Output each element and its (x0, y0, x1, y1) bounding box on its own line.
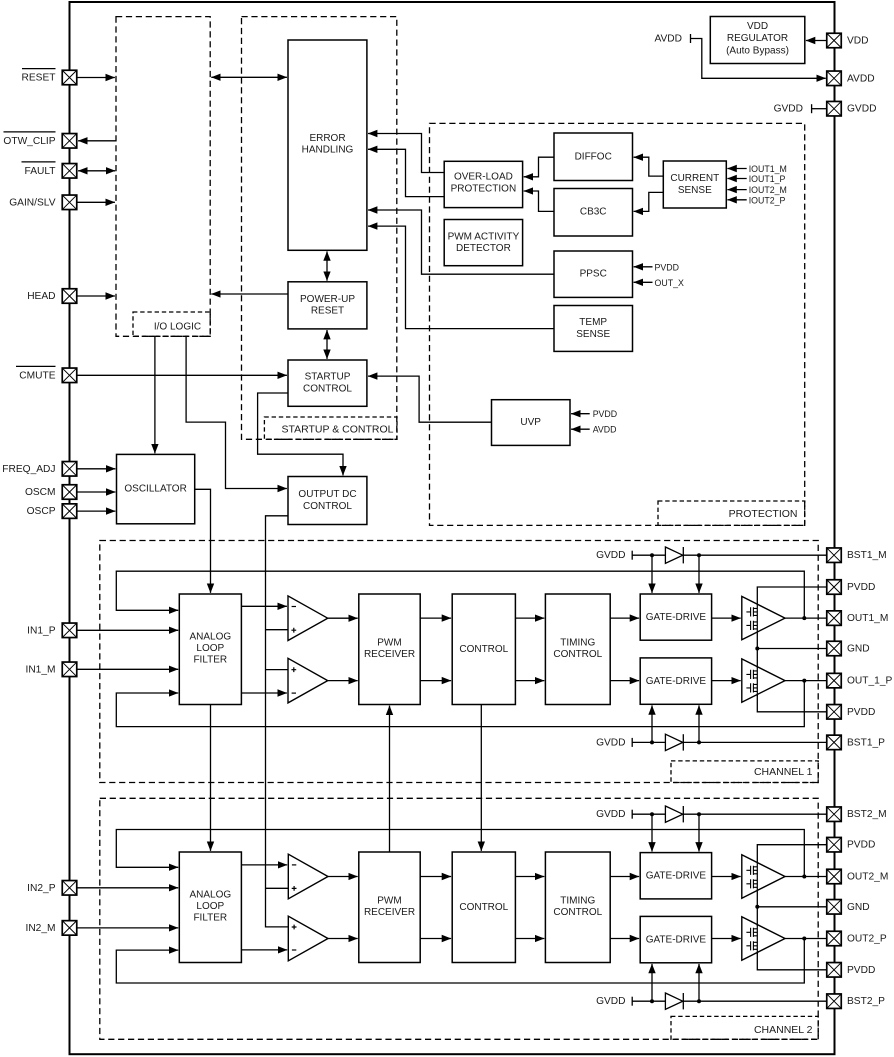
wire GATE-DRIVE to power stage upper (712, 617, 741, 619)
svg-text:FAULT: FAULT (25, 166, 56, 177)
svg-text:IN2_M: IN2_M (25, 923, 55, 934)
block CURRENT SENSE (663, 161, 726, 208)
block ch1 TIMING CONTROL (545, 594, 610, 705)
node junction OUT2_M (802, 875, 806, 879)
pin GVDD (827, 101, 842, 116)
svg-text:AVDD: AVDD (847, 73, 875, 84)
wire BST drop to GATE-DRIVE cathode side (698, 555, 700, 593)
node junction GND ch2 (755, 905, 759, 909)
wire IN1_M to ALF (77, 668, 178, 670)
node junction OUT2_P (802, 937, 806, 941)
wire IOUT1_P input (727, 178, 746, 180)
svg-text:IOUT1_M: IOUT1_M (749, 164, 787, 174)
block ch2 CONTROL (452, 852, 515, 963)
comparator ch1 lower (288, 658, 328, 703)
pin GND ch2 (827, 900, 842, 915)
wire GND vertical between power stages (756, 634, 758, 668)
node junction diode anode ch2 upper (650, 812, 654, 816)
svg-text:PWM: PWM (377, 895, 401, 906)
wire ch2 PWM RECEIVER to CONTROL upper (420, 876, 451, 878)
node junction diode anode ch2 lower (650, 999, 654, 1003)
block DIFFOC (554, 133, 633, 181)
svg-text:GATE-DRIVE: GATE-DRIVE (646, 934, 707, 945)
pin IN1_P (62, 623, 77, 638)
wire ERROR HANDLING to POWER-UP RESET bidirectional (326, 251, 328, 280)
svg-text:RECEIVER: RECEIVER (364, 649, 415, 660)
wire PVDD pin to ch2 power stage 1 (757, 845, 827, 863)
svg-text:GVDD: GVDD (596, 809, 625, 820)
pin VDD (827, 33, 842, 48)
wire PVDD input to UVP (571, 413, 590, 415)
comparator ch2 upper (288, 854, 328, 899)
svg-text:CONTROL: CONTROL (553, 907, 602, 918)
svg-text:GVDD: GVDD (596, 550, 625, 561)
node junction diode cathode ch2 lower (697, 999, 701, 1003)
svg-text:CONTROL: CONTROL (459, 644, 508, 655)
wire ch1 GVDD rail to BST1_P pin (632, 741, 827, 743)
wire OVER-LOAD PROTECTION to ERROR HANDLING upper (368, 134, 444, 173)
wire ch1 CONTROL to ch2 CONTROL (480, 705, 482, 851)
wire CMUTE pin to STARTUP CONTROL (77, 374, 287, 376)
wire PWM RECEIVER to CONTROL lower (420, 680, 451, 682)
wire ALF to comparator 1 minus (241, 605, 287, 607)
svg-text:PPSC: PPSC (580, 269, 607, 280)
node ch1 GVDD upper tick (631, 551, 633, 560)
svg-text:GVDD: GVDD (596, 737, 625, 748)
wire IOUT2_P input (727, 199, 746, 201)
pin PVDD ch2 upper (827, 837, 842, 852)
node junction diode cathode ch1 upper (697, 553, 701, 557)
block OUTPUT DC CONTROL (288, 477, 367, 525)
svg-text:OUT1_M: OUT1_M (847, 613, 888, 624)
wire OSCP pin to OSCILLATOR (77, 510, 115, 512)
channel 2 dashed region (100, 798, 818, 1039)
wire ch1 ALF to ch2 ALF (210, 705, 212, 851)
block ch1 GATE-DRIVE upper (640, 594, 711, 640)
wire ch2 power stage 1 to OUT2_M pin (785, 876, 827, 878)
wire PVDD pin to ch2 power stage 2 (757, 953, 827, 970)
block ch2 GATE-DRIVE upper (640, 853, 711, 899)
wire ch2 TIMING CONTROL to GATE-DRIVE upper (610, 876, 639, 878)
svg-text:BST2_P: BST2_P (847, 996, 885, 1007)
pin OUT2_P (827, 931, 842, 946)
svg-text:FILTER: FILTER (193, 913, 227, 924)
wire FAULT pin to I/O logic bidirectional (78, 170, 115, 172)
block ch2 TIMING CONTROL (545, 852, 610, 963)
svg-text:DIFFOC: DIFFOC (575, 152, 612, 163)
wire OUT_X input to PPSC (634, 281, 653, 283)
wire GVDD rise to GATE-DRIVE lower anode side (651, 705, 653, 742)
wire IN2_M to ALF (77, 927, 178, 929)
wire I/O logic to OTW_CLIP pin (78, 140, 116, 142)
svg-text:ANALOG: ANALOG (189, 890, 231, 901)
wire ODC branch ch1 comparator 1 plus (266, 629, 289, 631)
pin OSCP (62, 504, 77, 518)
wire GND pin to ch2 power stages (757, 906, 827, 908)
wire ch1 feedback OUT1_M to ALF (116, 571, 804, 618)
wire ch2 feedback OUT2_M to ALF (116, 830, 804, 877)
node junction diode anode ch1 upper (650, 553, 654, 557)
block POWER-UP RESET (288, 282, 367, 329)
wire AVDD source to AVDD pin (691, 39, 826, 79)
svg-text:CHANNEL 1: CHANNEL 1 (754, 766, 813, 778)
wire VDD pin to VDD REGULATOR (806, 40, 827, 42)
wire ch2 BST rise to GATE-DRIVE lower (698, 964, 700, 1001)
svg-text:CONTROL: CONTROL (303, 501, 352, 512)
svg-text:PVDD: PVDD (847, 840, 875, 851)
protection dashed region (430, 123, 805, 525)
svg-text:TEMP: TEMP (579, 317, 607, 328)
pin OUT1_M (827, 611, 842, 626)
wire ch2 GVDD rail to BST2_P pin (632, 1000, 827, 1002)
svg-text:STARTUP & CONTROL: STARTUP & CONTROL (281, 424, 393, 436)
svg-text:GVDD: GVDD (596, 996, 625, 1007)
wire GVDD drop to GATE-DRIVE anode side (651, 555, 653, 593)
pin OUT2_M (827, 869, 842, 884)
wire ch2 TIMING CONTROL to GATE-DRIVE lower (610, 938, 639, 940)
pin IN2_P (62, 881, 77, 896)
wire I/O logic to ERROR HANDLING bidirectional (211, 76, 287, 78)
wire STARTUP CONTROL to OUTPUT DC CONTROL (258, 393, 343, 475)
wire ch1 feedback OUT_1_P to ALF (116, 681, 804, 727)
svg-text:GVDD: GVDD (847, 104, 876, 115)
svg-text:SENSE: SENSE (576, 329, 610, 340)
svg-text:RESET: RESET (22, 73, 56, 84)
block PPSC (554, 251, 633, 297)
wire ch2 PWM RECEIVER to CONTROL lower (420, 938, 451, 940)
wire OSCM pin to OSCILLATOR (77, 491, 115, 493)
wire CURRENT SENSE to DIFFOC (634, 157, 664, 176)
wire IOUT2_M input (727, 189, 746, 191)
node junction OUT_1_P (802, 679, 806, 683)
svg-text:GVDD: GVDD (774, 104, 803, 115)
wire power stage 1 to OUT1_M pin (785, 617, 827, 619)
svg-text:RESET: RESET (311, 306, 344, 317)
node junction diode anode ch1 lower (650, 740, 654, 744)
STARTUP & CONTROL label box (264, 417, 397, 439)
block ch2 GATE-DRIVE lower (640, 916, 711, 962)
block ch2 ANALOG LOOP FILTER (179, 852, 241, 963)
node junction GND ch1 (755, 647, 759, 651)
wire ch1 GVDD rail to BST1_M pin (632, 554, 827, 556)
svg-text:IOUT1_P: IOUT1_P (749, 174, 786, 184)
svg-text:CURRENT: CURRENT (670, 173, 719, 184)
diode ch1 upper (665, 547, 683, 563)
wire PWM RECEIVER to CONTROL upper (420, 617, 451, 619)
svg-text:IN1_P: IN1_P (27, 625, 56, 636)
wire power stage 2 to OUT_1_P pin (785, 680, 827, 682)
pin PVDD ch2 lower (827, 963, 842, 978)
wire GAIN/SLV pin to I/O logic (77, 201, 115, 203)
svg-text:IOUT2_P: IOUT2_P (749, 195, 786, 205)
svg-text:AVDD: AVDD (654, 33, 682, 44)
comparator ch2 lower (288, 916, 328, 961)
svg-text:OUT_1_P: OUT_1_P (847, 676, 893, 687)
svg-text:BST1_P: BST1_P (847, 737, 885, 748)
svg-text:FREQ_ADJ: FREQ_ADJ (2, 464, 55, 475)
svg-text:FILTER: FILTER (193, 655, 227, 666)
power stage ch1 lower (742, 659, 785, 702)
wire PPSC to ERROR HANDLING (368, 210, 554, 274)
pin OSCM (62, 485, 77, 500)
wire ODC branch ch1 comparator 2 plus (266, 669, 289, 671)
svg-text:PVDD: PVDD (655, 262, 679, 272)
I/O logic dashed region (116, 17, 210, 337)
wire TIMING CONTROL to GATE-DRIVE upper (610, 617, 639, 619)
block ch1 PWM RECEIVER (359, 594, 420, 705)
pin FAULT (62, 164, 77, 179)
node ch2 GVDD upper tick (631, 810, 633, 819)
wire ch2 comparator 2 to PWM RECEIVER (328, 938, 358, 940)
svg-text:OUTPUT DC: OUTPUT DC (298, 489, 356, 500)
svg-text:POWER-UP: POWER-UP (300, 294, 355, 305)
wire OUTPUT DC CONTROL to comparator plus inputs (266, 516, 289, 927)
svg-text:IOUT2_M: IOUT2_M (749, 185, 787, 195)
wire CONTROL to TIMING CONTROL lower (515, 680, 544, 682)
svg-text:GATE-DRIVE: GATE-DRIVE (646, 612, 707, 623)
block OVER-LOAD PROTECTION (444, 161, 522, 207)
wire FREQ_ADJ pin to OSCILLATOR (77, 468, 115, 470)
svg-text:LOOP: LOOP (196, 901, 224, 912)
pin OTW_CLIP (62, 134, 77, 149)
wire ALF to ch2 comparator 1 minus (241, 864, 287, 866)
wire AVDD input to UVP (571, 428, 590, 430)
svg-text:REGULATOR: REGULATOR (727, 33, 788, 44)
svg-text:VDD: VDD (847, 36, 869, 47)
svg-text:UVP: UVP (520, 417, 541, 428)
svg-text:OUT_X: OUT_X (655, 278, 684, 288)
wire TIMING CONTROL to GATE-DRIVE lower (610, 680, 639, 682)
wire ALF to ch2 comparator 2 minus (241, 949, 287, 951)
node ch2 GVDD lower tick (631, 997, 633, 1006)
diode ch2 lower (665, 993, 683, 1009)
wire ch2 PWM receiver to ch1 PWM receiver (389, 706, 391, 852)
wire ch2 CONTROL to TIMING CONTROL lower (515, 938, 544, 940)
diode ch1 lower (665, 734, 683, 750)
block PWM ACTIVITY DETECTOR (444, 220, 522, 266)
svg-text:GATE-DRIVE: GATE-DRIVE (646, 871, 707, 882)
startup & control dashed region (242, 17, 397, 440)
svg-text:OSCP: OSCP (27, 506, 56, 517)
svg-text:CMUTE: CMUTE (19, 370, 55, 381)
wire UVP to STARTUP CONTROL (368, 376, 492, 422)
wire OSCILLATOR to ch1 analog loop filter (195, 489, 211, 593)
wire HEAD pin to I/O logic (77, 295, 115, 297)
wire comparator 2 to PWM RECEIVER (328, 680, 358, 682)
wire IN1_P to ALF (77, 629, 178, 631)
block CB3C (554, 189, 633, 237)
block ch1 CONTROL (452, 594, 515, 705)
block OSCILLATOR (117, 454, 195, 523)
wire OVER-LOAD PROTECTION to ERROR HANDLING lower (368, 149, 444, 196)
block TEMP SENSE (554, 306, 633, 352)
svg-text:TIMING: TIMING (560, 637, 595, 648)
wire IOUT1_M input (727, 168, 746, 170)
svg-text:OSCM: OSCM (25, 487, 56, 498)
PROTECTION label box (658, 501, 805, 525)
svg-text:PVDD: PVDD (847, 707, 875, 718)
pin IN1_M (62, 662, 77, 677)
node junction diode cathode ch1 lower (697, 740, 701, 744)
svg-text:ANALOG: ANALOG (189, 632, 231, 643)
block ch1 GATE-DRIVE lower (640, 658, 711, 704)
power stage ch2 lower (742, 917, 785, 960)
wire I/O logic to OUTPUT DC CONTROL (186, 336, 287, 488)
block UVP (492, 400, 571, 446)
comparator ch1 upper (288, 596, 328, 641)
wire PVDD input to PPSC (634, 266, 653, 268)
node junction OUT1_M (802, 616, 806, 620)
svg-text:PWM ACTIVITY: PWM ACTIVITY (448, 231, 520, 242)
pin BST1_M (827, 548, 842, 563)
power stage ch2 upper (742, 855, 785, 898)
wire GVDD source to GVDD pin (812, 108, 827, 110)
wire ch2 feedback OUT2_P to ALF (116, 939, 804, 984)
svg-text:CONTROL: CONTROL (553, 649, 602, 660)
svg-text:PVDD: PVDD (593, 409, 617, 419)
svg-text:OUT2_P: OUT2_P (847, 934, 887, 945)
svg-text:CHANNEL 2: CHANNEL 2 (754, 1024, 813, 1036)
pin CMUTE (62, 368, 77, 383)
pin GND ch1 (827, 641, 842, 656)
svg-text:CONTROL: CONTROL (459, 902, 508, 913)
svg-text:PVDD: PVDD (847, 965, 875, 976)
block VDD REGULATOR (710, 17, 805, 64)
wire DIFFOC to OVER-LOAD PROTECTION (524, 157, 554, 177)
wire TEMP SENSE to ERROR HANDLING (368, 226, 554, 329)
channel 1 dashed region (100, 541, 818, 783)
pin PVDD ch1 upper (827, 580, 842, 595)
wire ALF to comparator 2 minus (241, 692, 287, 694)
wire I/O logic to OSCILLATOR (154, 336, 156, 453)
svg-text:IN1_M: IN1_M (25, 664, 55, 675)
wire ch2 GATE-DRIVE to power stage upper (712, 876, 741, 878)
svg-text:LOOP: LOOP (196, 643, 224, 654)
wire ch2 GATE-DRIVE to power stage lower (712, 938, 741, 940)
svg-text:PROTECTION: PROTECTION (729, 508, 798, 520)
node GVDD source tick (811, 104, 813, 113)
wire POWER-UP RESET to STARTUP CONTROL bidirectional (326, 330, 328, 359)
svg-text:PVDD: PVDD (847, 582, 875, 593)
svg-text:CB3C: CB3C (580, 207, 607, 218)
svg-text:VDD: VDD (747, 21, 768, 32)
node AVDD source tick (690, 34, 692, 43)
wire ch2 GVDD drop to GATE-DRIVE (651, 814, 653, 851)
node ch1 GVDD lower tick (631, 738, 633, 747)
wire ch2 GVDD rail to BST2_M pin (632, 813, 827, 815)
svg-text:OUT2_M: OUT2_M (847, 872, 888, 883)
block ch1 ANALOG LOOP FILTER (179, 594, 241, 705)
wire CONTROL to TIMING CONTROL upper (515, 617, 544, 619)
svg-text:GND: GND (847, 902, 870, 913)
diode ch2 upper (665, 806, 683, 822)
CHANNEL 2 label box (671, 1016, 818, 1039)
wire CURRENT SENSE to CB3C (634, 192, 664, 211)
wire POWER-UP RESET to I/O logic (211, 293, 288, 295)
pin BST2_M (827, 807, 842, 822)
pin OUT_1_P (827, 673, 842, 688)
pin BST2_P (827, 994, 842, 1009)
wire BST rise to GATE-DRIVE lower cathode side (698, 705, 700, 742)
svg-text:(Auto Bypass): (Auto Bypass) (726, 46, 789, 57)
svg-text:HEAD: HEAD (27, 291, 55, 302)
block STARTUP CONTROL (288, 360, 367, 406)
svg-text:SENSE: SENSE (678, 185, 712, 196)
svg-text:GAIN/SLV: GAIN/SLV (9, 197, 55, 208)
svg-text:CONTROL: CONTROL (303, 383, 352, 394)
wire GATE-DRIVE to power stage lower (712, 680, 741, 682)
wire PVDD pin to power stage 1 (757, 587, 827, 604)
pin RESET (62, 70, 77, 85)
block ch2 PWM RECEIVER (359, 852, 420, 963)
svg-text:DETECTOR: DETECTOR (456, 243, 511, 254)
wire ch2 GND vertical between power stages (756, 892, 758, 926)
svg-text:GATE-DRIVE: GATE-DRIVE (646, 676, 707, 687)
svg-text:OTW_CLIP: OTW_CLIP (3, 136, 55, 147)
svg-text:TIMING: TIMING (560, 895, 595, 906)
pin BST1_P (827, 735, 842, 750)
wire ch2 GVDD rise to GATE-DRIVE lower (651, 964, 653, 1001)
svg-text:I/O LOGIC: I/O LOGIC (154, 322, 201, 333)
power stage ch1 upper (742, 596, 785, 639)
svg-text:BST1_M: BST1_M (847, 550, 887, 561)
pin GAIN/SLV (62, 195, 77, 210)
CHANNEL 1 label box (671, 761, 818, 783)
block ERROR HANDLING (288, 40, 367, 250)
svg-text:BST2_M: BST2_M (847, 809, 887, 820)
svg-text:STARTUP: STARTUP (305, 372, 351, 383)
svg-text:HANDLING: HANDLING (302, 144, 354, 155)
pin FREQ_ADJ (62, 462, 77, 477)
svg-text:OSCILLATOR: OSCILLATOR (124, 484, 186, 495)
pin AVDD (827, 71, 842, 86)
svg-text:AVDD: AVDD (593, 425, 617, 435)
pin PVDD ch1 lower (827, 705, 842, 720)
wire ch2 BST drop to GATE-DRIVE (698, 814, 700, 851)
wire ch2 power stage 2 to OUT2_P pin (785, 938, 827, 940)
wire comparator 1 to PWM RECEIVER (328, 617, 358, 619)
svg-text:PWM: PWM (377, 637, 401, 648)
pin HEAD (62, 289, 77, 304)
svg-text:GND: GND (847, 644, 870, 655)
wire ch2 CONTROL to TIMING CONTROL upper (515, 876, 544, 878)
I/O LOGIC label box (133, 312, 210, 336)
wire RESET pin to I/O logic (77, 77, 115, 79)
svg-text:OVER-LOAD: OVER-LOAD (454, 172, 513, 183)
pin IN2_M (62, 921, 77, 936)
wire PVDD pin to power stage 2 (757, 695, 827, 712)
svg-text:ERROR: ERROR (309, 133, 345, 144)
svg-text:IN2_P: IN2_P (27, 883, 56, 894)
node junction diode cathode ch2 upper (697, 812, 701, 816)
wire GND pin to power stages (757, 648, 827, 650)
svg-text:PROTECTION: PROTECTION (451, 184, 517, 195)
wire ch2 comparator 1 to PWM RECEIVER (328, 876, 358, 878)
wire CB3C to OVER-LOAD PROTECTION (524, 191, 554, 211)
wire ODC branch ch2 comparator 1 plus (266, 887, 289, 889)
svg-text:RECEIVER: RECEIVER (364, 907, 415, 918)
wire IN2_P to ALF (77, 887, 178, 889)
